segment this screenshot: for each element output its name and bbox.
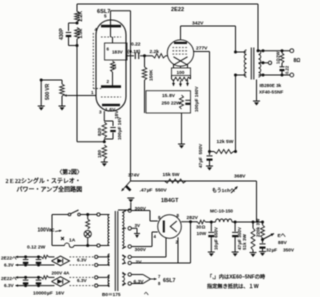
svg-text:IB280E 3k: IB280E 3k: [260, 83, 282, 88]
svg-text:0.22: 0.22: [131, 42, 141, 48]
svg-text:183V: 183V: [112, 50, 124, 55]
terminal 2V a: [122, 255, 131, 258]
switch power: [68, 210, 80, 216]
ground 10uF: [208, 252, 215, 257]
svg-text:「,」内はXE60−5NFの時: 「,」内はXE60−5NFの時: [207, 273, 266, 281]
label 1.5k: [78, 29, 84, 39]
svg-text:282V: 282V: [187, 215, 199, 221]
rectifier filament: [170, 221, 177, 232]
resistor 180 cathode: [102, 145, 107, 159]
ground 32uF: [259, 252, 266, 257]
svg-text:6.3V: 6.3V: [77, 257, 88, 262]
svg-text:B0＝175: B0＝175: [102, 292, 121, 297]
label 2.2K: [78, 11, 84, 22]
svg-text:200V 4A: 200V 4A: [52, 271, 71, 276]
svg-text:XF40-5SNF: XF40-5SNF: [259, 90, 283, 95]
label OPT model line2: [259, 90, 283, 95]
pin 1 label: [91, 90, 94, 95]
wire plate top pin: [110, 11, 112, 26]
wire NFB top rail: [77, 3, 258, 5]
wire filament pins: [174, 65, 188, 68]
cathode bar lower triode: [102, 104, 120, 106]
resistor 150K grid leak: [142, 56, 147, 113]
ground input: [38, 106, 45, 111]
pin 2 label: [107, 79, 110, 84]
wire AC left: [51, 215, 53, 246]
wire B plus main: [197, 221, 263, 223]
label 30ohm: [196, 225, 206, 230]
svg-text:10W: 10W: [197, 231, 207, 236]
node divider top: [261, 221, 264, 224]
wire rail right drop: [256, 181, 258, 222]
node bleeder top: [252, 221, 255, 224]
potentiometer VR: [60, 80, 65, 106]
label 1ohm 2W: [276, 52, 281, 64]
choke MC-10-150: [216, 219, 233, 222]
transformer PT 2V winding: [122, 255, 124, 264]
label 200V 4A: [52, 271, 71, 276]
svg-text:指定無き抵抗は、１W: 指定無き抵抗は、１W: [207, 282, 259, 290]
svg-text:1k: 1k: [112, 64, 117, 69]
node OPT primary bottom pin: [234, 74, 237, 77]
label 10uF 650V: [214, 226, 219, 250]
ground 51k: [250, 253, 257, 258]
plate bar lower triode: [101, 85, 121, 88]
wire input ground stem: [40, 80, 42, 106]
terminal 2V b: [122, 261, 131, 264]
transformer PT core: [115, 211, 118, 291]
resistor 1.5k NFB: [75, 28, 80, 40]
ground pot: [59, 106, 66, 111]
wire screen line down: [209, 52, 211, 152]
transformer PT primary: [108, 215, 110, 246]
label 430P: [59, 28, 65, 40]
wire AC bottom: [52, 245, 107, 247]
svg-text:へ: へ: [144, 291, 149, 296]
resistor lamp dropper: [86, 215, 90, 230]
svg-text:0.22: 0.22: [285, 65, 290, 74]
label OPT model line1: [260, 83, 282, 88]
pin 8 right label: [177, 213, 180, 218]
svg-text:.47 µF 550V: .47 µF 550V: [140, 188, 168, 194]
terminal SP bottom: [290, 73, 294, 77]
ground OPT secondary: [253, 101, 260, 106]
svg-text:15. 8V: 15. 8V: [162, 93, 176, 99]
node secondary tap dots: [262, 49, 265, 76]
label 1.6V: [105, 107, 116, 113]
label (0.18): [128, 49, 141, 55]
ground cathode: [101, 162, 108, 167]
label 1k: [112, 64, 117, 69]
svg-text:250 22W: 250 22W: [162, 101, 182, 107]
arrow filament tap 1: [172, 80, 175, 87]
pin 6 label: [107, 47, 110, 52]
note line 1: [207, 273, 266, 281]
label B0-175: [102, 292, 121, 297]
svg-text:2E22へ: 2E22へ: [1, 276, 17, 281]
node input terminal: [40, 79, 43, 82]
zobel network: [280, 51, 285, 75]
svg-text:47 µF 550V: 47 µF 550V: [198, 143, 203, 168]
label 6.3V winding1: [77, 257, 88, 262]
svg-text:100: 100: [177, 70, 185, 75]
capacitor 32uF: [260, 240, 266, 252]
ground 47uF: [206, 166, 213, 171]
terminal AC top: [97, 213, 100, 216]
label 0.12 2W: [27, 245, 46, 251]
label 100Vac: [38, 228, 55, 234]
label E he: [278, 233, 286, 239]
terminal HV CT: [122, 227, 131, 230]
node lamp bottom: [86, 244, 89, 247]
capacitor 100uF 160V: [185, 100, 190, 105]
wire NFB vertical drop at OPT: [257, 4, 259, 51]
label 277V: [196, 46, 208, 52]
capacitor .47uF: [125, 185, 131, 191]
svg-text:6.3V: 6.3V: [4, 283, 15, 288]
svg-text:500 VR: 500 VR: [45, 83, 51, 100]
resistor 820 cathode: [102, 122, 107, 138]
terminal AC bottom: [97, 244, 100, 247]
label 2V: [136, 260, 143, 266]
capacitor 10uF 650V: [208, 222, 214, 252]
svg-text:150K: 150K: [149, 69, 155, 81]
node OPT primary top pin: [234, 51, 237, 54]
wire HV bottom to plate: [131, 232, 157, 247]
svg-text:(0.18): (0.18): [128, 49, 141, 55]
wire cathode down: [103, 111, 105, 121]
resistor 1k internal: [111, 61, 115, 72]
svg-text:5: 5: [104, 14, 107, 19]
heater supply row1: [16, 255, 108, 266]
label 300V bottom: [135, 247, 147, 253]
resistor 250 22W: [180, 95, 184, 109]
label 100: [177, 70, 185, 75]
arrow other channel right: [231, 187, 238, 194]
wire 6.3V to 6SL7 bracket: [131, 275, 150, 284]
resistor 51k 3W: [251, 222, 255, 253]
svg-text:342V: 342V: [192, 21, 204, 27]
pin8 label: [158, 281, 161, 286]
label 1B4GT: [161, 198, 179, 204]
svg-text:350V: 350V: [283, 248, 295, 253]
tube 6SL7 envelope: [96, 20, 126, 111]
label 8ohm: [294, 58, 301, 64]
transformer OPT core: [251, 48, 254, 80]
grid dashes lower triode: [101, 96, 121, 98]
pin7 label: [158, 274, 161, 279]
resistor 15k 5W: [165, 179, 187, 183]
box 100 hum pot: [172, 68, 191, 76]
svg-text:Eへ: Eへ: [278, 233, 286, 239]
wire screen to 277V: [194, 51, 210, 53]
ground PT shield: [118, 198, 134, 210]
resistor 30ohm: [198, 220, 206, 224]
label 6SL7: [97, 9, 110, 15]
wire plate top to B+ line: [111, 10, 131, 12]
wire cathode box ground: [181, 113, 183, 144]
grid dashes upper triode: [101, 36, 121, 38]
capacitor 100uF cathode: [110, 128, 116, 133]
terminal 63 a: [122, 273, 131, 276]
wire 2V to filament b: [131, 220, 192, 263]
wire B+ vertical: [130, 11, 132, 181]
svg-text:3V: 3V: [135, 223, 142, 228]
label 12k 5W: [217, 139, 234, 145]
transformer OPT primary: [244, 50, 246, 77]
svg-text:100Vac: 100Vac: [38, 228, 55, 234]
svg-text:51k 3W: 51k 3W: [242, 234, 247, 250]
label 368V: [234, 174, 246, 180]
wire rectifier output: [181, 221, 197, 223]
wire internal cathode-plate: [111, 27, 113, 85]
transformer PT heater winding2: [107, 275, 110, 287]
ground CT: [134, 234, 140, 239]
wire AC top: [52, 214, 107, 216]
label 32uF 350V: [266, 248, 295, 253]
filament 2E22: [174, 57, 188, 65]
svg-text:277V: 277V: [196, 46, 208, 52]
capacitor 47uF 550V: [207, 152, 213, 167]
svg-text:15k 5W: 15k 5W: [163, 172, 180, 178]
label 6.3V xfmr: [134, 279, 145, 285]
resistor 2.2k grid stopper: [153, 54, 166, 58]
wire mid rail: [131, 180, 257, 182]
label 820: [97, 128, 103, 136]
svg-text:1B4GT: 1B4GT: [161, 198, 179, 204]
terminal SP top: [290, 49, 294, 53]
arrow 6SL7 heater: [151, 278, 157, 281]
label 15.8V: [162, 93, 176, 99]
label 88V: [278, 240, 287, 246]
svg-text:6.3V: 6.3V: [4, 263, 15, 268]
svg-text:220k 3W: 220k 3W: [256, 218, 261, 237]
plug prongs: [61, 237, 64, 240]
wire coupling: [126, 55, 167, 57]
svg-text:430P: 430P: [59, 28, 65, 40]
note line 2: [207, 282, 259, 290]
label 6.3V winding2: [77, 278, 88, 283]
label mou 1ch he: [212, 187, 235, 194]
svg-text:2E22: 2E22: [171, 7, 184, 13]
wire cathode parallel stubs: [104, 121, 113, 142]
pin 4 label: [95, 27, 98, 32]
resistor 2.2K NFB: [75, 12, 80, 22]
node grid leak junction: [143, 54, 146, 57]
svg-text:100 µF 16V: 100 µF 16V: [117, 116, 122, 140]
svg-text:8Ω: 8Ω: [294, 58, 301, 64]
plate bar 2E22: [174, 42, 187, 44]
label VR 500k: [45, 83, 51, 100]
pin 2 label rect: [176, 240, 179, 245]
node choke out: [234, 221, 237, 224]
node zobel top: [281, 49, 284, 52]
label 2E22: [171, 7, 184, 13]
heater supply row2: [16, 276, 108, 288]
label 0.22: [131, 42, 141, 48]
label 150K: [149, 69, 155, 81]
svg-text:1: 1: [91, 90, 94, 95]
rectifier plates: [163, 221, 165, 233]
pin 3 label: [99, 110, 102, 115]
wire HV top to plate: [131, 211, 157, 222]
label 2E22-2: [1, 276, 17, 281]
svg-text:30 Ω: 30 Ω: [196, 225, 206, 230]
svg-text:パワー・アンプ全回路図: パワー・アンプ全回路図: [17, 186, 83, 194]
plate bar upper triode: [101, 25, 121, 28]
label 342V: [192, 21, 204, 27]
svg-text:368V: 368V: [234, 174, 246, 180]
dashed internal connection: [93, 33, 103, 89]
svg-text:820: 820: [97, 128, 103, 136]
label 47uF 350V: [237, 226, 242, 250]
terminal HV bottom: [122, 245, 131, 249]
box cathode bias: [146, 91, 191, 113]
wire grid input: [68, 95, 97, 97]
ground 47uF 350V: [232, 252, 239, 257]
pin 5 label: [104, 14, 107, 19]
label 300V top: [135, 206, 147, 212]
label 100uF 16V: [117, 116, 122, 140]
svg-text:6.3V: 6.3V: [134, 279, 145, 285]
label 15k 5W: [163, 172, 180, 178]
terminal HV top: [122, 209, 131, 213]
svg-text:1A: 1A: [69, 238, 76, 244]
node NFB upper junction: [76, 22, 79, 25]
arrow filament tap 3: [186, 80, 189, 87]
svg-text:88V: 88V: [278, 240, 287, 246]
node zobel bottom: [281, 74, 284, 77]
arrow AC source: [55, 230, 62, 232]
wire 342V drop to OPT: [235, 26, 237, 52]
svg-text:300V: 300V: [135, 206, 147, 212]
transformer PT heater winding1: [107, 254, 110, 266]
label 2.2k: [150, 49, 160, 55]
label 1A: [69, 238, 76, 244]
caption line 2: [17, 186, 83, 194]
wire OPT secondary ground stem: [256, 80, 258, 102]
node NFB takeoff: [257, 49, 260, 52]
wire lamp join: [87, 238, 89, 246]
node 12k right: [234, 150, 237, 153]
terminal 4ohm: [268, 61, 271, 64]
svg-text:6SL7: 6SL7: [163, 278, 176, 284]
label 0.22 zobel: [285, 65, 290, 74]
svg-text:12k 5W: 12k 5W: [217, 139, 234, 145]
svg-text:1.5k: 1.5k: [78, 29, 84, 39]
resistor hum balance: [172, 76, 191, 81]
svg-text:32 µF: 32 µF: [266, 248, 277, 253]
node lamp top: [86, 213, 89, 216]
wire 2E22 plate: [180, 26, 182, 40]
svg-text:2 E 22シングル・ステレオ・: 2 E 22シングル・ステレオ・: [6, 177, 81, 185]
caption line 1: [6, 177, 81, 185]
label h: [144, 291, 149, 296]
label 100uF 160V: [194, 86, 199, 112]
label 180: [97, 150, 103, 158]
svg-text:10 µF 650V: 10 µF 650V: [214, 226, 219, 250]
wire PT primary ends: [107, 215, 110, 246]
svg-text:0.12 2W: 0.12 2W: [27, 245, 46, 251]
label 250 22W: [162, 101, 182, 107]
label 51k 3W: [242, 234, 247, 250]
box midpoint 183V: [105, 43, 128, 60]
pin 4 label rect: [154, 234, 157, 239]
label 3V CT: [135, 223, 142, 228]
svg-text:10000 µF 16V: 10000 µF 16V: [33, 291, 65, 297]
label 220k 3W: [256, 218, 261, 237]
svg-text:374V: 374V: [128, 173, 140, 179]
svg-text:3: 3: [99, 110, 102, 115]
pot wiper arrow: [64, 94, 68, 97]
transformer OPT secondary: [259, 50, 261, 77]
svg-text:2.2K: 2.2K: [78, 11, 84, 22]
caption figure number: [57, 168, 83, 176]
label 47uF 550V: [198, 143, 203, 168]
arrow other channel left: [122, 181, 131, 191]
label 6.3V-2: [4, 283, 15, 288]
svg-text:2.2k: 2.2k: [150, 49, 160, 55]
node divider tap: [261, 238, 264, 241]
wire NFB to cathode: [77, 141, 104, 143]
wire 2V to filament a: [131, 238, 166, 257]
wire NFB left vertical: [76, 4, 78, 142]
grid dashes 2E22: [173, 48, 189, 55]
label 2E22-1: [1, 256, 17, 261]
svg-text:MC-10-150: MC-10-150: [210, 209, 233, 214]
svg-text:100 µF 160V: 100 µF 160V: [194, 86, 199, 112]
node NFB lower junction: [76, 44, 79, 47]
resistor 12k 5W: [210, 150, 236, 154]
wire input to pot: [41, 79, 62, 81]
arrow E out: [263, 234, 275, 240]
pin 8 left label: [158, 215, 161, 220]
lamp pilot: [84, 230, 91, 237]
fuse 1A: [65, 243, 75, 247]
terminal 63 b: [122, 282, 131, 285]
node cathode NFB junction: [103, 140, 106, 143]
wire 342V rail: [181, 25, 236, 27]
label 282V: [187, 215, 199, 221]
svg-text:2E22へ: 2E22へ: [1, 256, 17, 261]
transformer PT 6.3V winding: [122, 273, 124, 286]
wire cap branch stubs: [69, 23, 78, 46]
node choke in: [210, 221, 213, 224]
label 10000uF 16V: [33, 291, 65, 297]
svg-text:6.3V: 6.3V: [77, 278, 88, 283]
wire OPT secondary taps: [259, 51, 291, 75]
label 6SL7 heater: [163, 278, 176, 284]
svg-text:4: 4: [95, 27, 98, 32]
svg-text:〈第2図〉: 〈第2図〉: [57, 168, 83, 176]
label .47uF 550V: [140, 188, 168, 194]
wire to ground: [103, 159, 105, 162]
label 10W: [197, 231, 207, 236]
tube rectifier envelope: [158, 215, 182, 239]
wire OPT B+ down: [235, 75, 237, 152]
svg-text:1Ω 2W: 1Ω 2W: [276, 52, 281, 64]
node 12k left: [208, 150, 211, 153]
label 374V: [128, 173, 140, 179]
ground 2E22 cathode: [178, 144, 185, 149]
wire CT ground: [131, 228, 137, 233]
capacitor 430P: [66, 33, 72, 38]
svg-text:2: 2: [107, 79, 110, 84]
tube 2E22 envelope: [167, 40, 193, 66]
svg-text:300V: 300V: [135, 247, 147, 253]
svg-text:180: 180: [97, 150, 103, 158]
resistor 220k 3W: [261, 222, 265, 238]
